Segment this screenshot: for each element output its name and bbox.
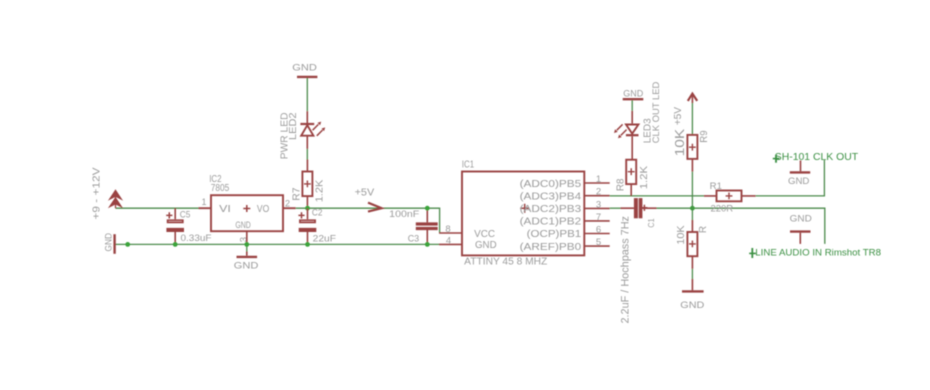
supply arrow +5V up	[673, 94, 697, 126]
svg-text:SH-101 CLK OUT: SH-101 CLK OUT	[775, 151, 859, 163]
svg-text:R: R	[698, 226, 709, 233]
svg-text:GND: GND	[235, 220, 250, 231]
svg-text:220R: 220R	[711, 203, 734, 214]
svg-text:10K: 10K	[676, 225, 687, 245]
svg-text:C1: C1	[646, 218, 656, 227]
svg-text:GND: GND	[788, 176, 810, 187]
wire VIN top rail	[116, 207, 199, 209]
svg-text:1: 1	[596, 174, 601, 185]
ground below R	[680, 279, 704, 311]
svg-text:VO: VO	[257, 203, 269, 215]
svg-text:GND: GND	[292, 62, 317, 73]
svg-text:10K: 10K	[673, 128, 687, 156]
junction left rail	[125, 242, 130, 247]
svg-text:(OCP)PB1: (OCP)PB1	[527, 228, 582, 240]
svg-text:GND: GND	[680, 300, 704, 311]
capacitor C1 2.2uF	[619, 198, 656, 323]
svg-text:1.2K: 1.2K	[639, 166, 650, 190]
wire PB3 net left	[610, 207, 621, 209]
junction IC2 pin3	[244, 242, 249, 247]
resistor R7 1.2K	[291, 160, 325, 209]
voltage regulator IC2 7805	[199, 174, 296, 243]
svg-text:CLK OUT LED: CLK OUT LED	[650, 81, 661, 143]
svg-text:2: 2	[596, 187, 601, 198]
LED LED2 PWR LED	[280, 111, 326, 159]
svg-text:+5V: +5V	[355, 187, 375, 198]
svg-text:ATTINY 45 8 MHZ: ATTINY 45 8 MHZ	[464, 257, 547, 268]
wire IC2 pin3 to ground	[246, 231, 248, 244]
svg-text:2: 2	[285, 199, 290, 209]
supply arrow +5V right	[355, 187, 382, 211]
svg-text:0.33uF: 0.33uF	[181, 233, 212, 244]
svg-text:IC1: IC1	[462, 159, 475, 170]
ground left rail	[103, 233, 114, 254]
svg-text:1: 1	[202, 197, 207, 207]
junction R9/R divider	[690, 206, 695, 211]
wire R9 to junction	[691, 159, 693, 172]
svg-text:(ADC3)PB4: (ADC3)PB4	[520, 190, 582, 202]
ground IC2 pin3	[234, 252, 259, 272]
svg-text:1.2K: 1.2K	[315, 179, 326, 202]
svg-text:GND: GND	[103, 233, 114, 252]
svg-text:VI: VI	[219, 203, 231, 215]
svg-text:3: 3	[238, 237, 249, 242]
junction C2/GND	[305, 242, 310, 247]
svg-text:+5V: +5V	[673, 107, 684, 126]
wire +5V to R9	[691, 103, 693, 135]
svg-text:5: 5	[596, 237, 601, 248]
wire R1 to SH-101 out	[756, 160, 825, 196]
svg-text:GND: GND	[790, 214, 812, 225]
svg-text:(ADC0)PB5: (ADC0)PB5	[520, 178, 582, 190]
svg-text:(ADC1)PB2: (ADC1)PB2	[520, 216, 582, 228]
svg-text:R7: R7	[291, 187, 302, 201]
svg-text:R1: R1	[710, 181, 722, 192]
junction C3 top	[425, 206, 430, 211]
junction R7/C2	[305, 206, 310, 211]
wire GND bottom rail	[116, 243, 440, 245]
svg-text:6: 6	[596, 224, 601, 235]
ground SH-101	[788, 161, 810, 188]
ground above LED3	[623, 89, 644, 111]
junction C3 bottom	[425, 242, 430, 247]
capacitor C5 0.33uF	[166, 208, 212, 244]
svg-text:22uF: 22uF	[313, 233, 337, 244]
svg-text:C2: C2	[312, 208, 323, 219]
LED LED3 CLK OUT LED	[614, 81, 661, 159]
net label LINE AUDIO IN	[749, 248, 881, 259]
svg-text:7805: 7805	[211, 183, 230, 194]
svg-text:C3: C3	[408, 233, 420, 244]
wire +5V net	[296, 208, 440, 233]
svg-text:4: 4	[446, 235, 451, 246]
svg-text:3: 3	[596, 199, 601, 210]
ground above LED2	[292, 62, 317, 111]
wire R to ground	[691, 269, 693, 279]
junction C5/GND	[173, 242, 178, 247]
resistor R 10K lower	[676, 220, 709, 269]
net label SH-101 CLK OUT	[773, 151, 859, 163]
svg-text:LED2: LED2	[288, 112, 299, 140]
svg-text:7: 7	[596, 212, 601, 223]
wire LED2 to R7	[306, 149, 308, 160]
svg-text:8: 8	[445, 224, 450, 235]
svg-text:(AREF)PB0: (AREF)PB0	[520, 241, 582, 253]
capacitor C2 22uF	[298, 208, 336, 245]
svg-text:R9: R9	[699, 130, 710, 143]
wire PB4 net	[610, 195, 704, 197]
ground LINE AUDIO	[790, 214, 812, 244]
svg-text:+9 - +12V: +9 - +12V	[91, 167, 103, 219]
svg-text:100nF: 100nF	[389, 209, 419, 220]
supply arrow +9 - +12V	[91, 167, 124, 219]
resistor R9 10K	[673, 128, 710, 159]
wire PB3 net right	[657, 208, 825, 244]
IC IC1 ATTINY45	[439, 159, 610, 267]
svg-text:R8: R8	[616, 178, 627, 191]
svg-text:(ADC2)PB3: (ADC2)PB3	[520, 203, 582, 215]
resistor R8 1.2K	[616, 160, 650, 196]
svg-text:2.2uF / Hochpass 7Hz: 2.2uF / Hochpass 7Hz	[619, 216, 631, 324]
svg-text:LINE AUDIO IN Rimshot TR8: LINE AUDIO IN Rimshot TR8	[755, 248, 881, 259]
svg-text:GND: GND	[623, 89, 643, 100]
svg-text:GND: GND	[475, 239, 497, 251]
resistor R1 220R	[704, 181, 756, 215]
svg-text:C5: C5	[180, 210, 191, 221]
capacitor C3 100nF	[389, 208, 438, 244]
svg-text:GND: GND	[234, 260, 259, 271]
